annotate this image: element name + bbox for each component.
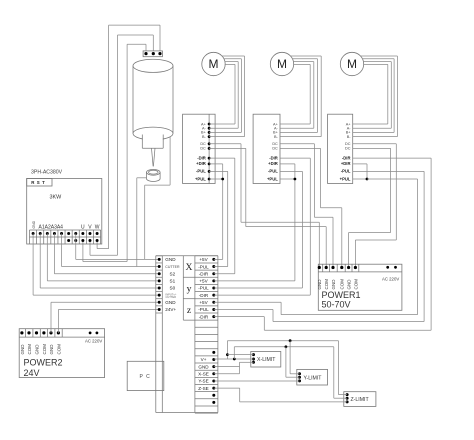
svg-text:X: X: [186, 262, 193, 273]
svg-text:COM: COM: [353, 279, 358, 290]
svg-text:+DIR: +DIR: [341, 161, 351, 166]
svg-text:DC: DC: [272, 142, 278, 146]
svg-text:GND: GND: [331, 279, 336, 290]
svg-text:-DIR: -DIR: [269, 155, 278, 160]
svg-text:50-70V: 50-70V: [322, 300, 351, 310]
svg-text:COM: COM: [340, 279, 345, 290]
svg-text:-DIR: -DIR: [342, 155, 351, 160]
svg-text:AC 220V: AC 220V: [85, 339, 102, 344]
svg-text:+PUL: +PUL: [195, 176, 206, 181]
svg-text:+5V: +5V: [199, 257, 208, 262]
svg-text:Z-SE: Z-SE: [198, 386, 208, 391]
svg-text:-DIR: -DIR: [199, 314, 209, 319]
svg-text:24V: 24V: [24, 368, 40, 378]
svg-text:POWER1: POWER1: [322, 290, 361, 300]
svg-text:X-LIMIT: X-LIMIT: [257, 357, 276, 363]
svg-text:S0: S0: [170, 286, 176, 291]
svg-text:-PUL: -PUL: [198, 307, 209, 312]
svg-text:GND: GND: [32, 220, 36, 228]
svg-text:+DIR: +DIR: [268, 161, 278, 166]
svg-text:+5V: +5V: [199, 300, 208, 305]
svg-text:X-SE: X-SE: [198, 372, 209, 377]
svg-text:+PUL: +PUL: [267, 176, 278, 181]
svg-text:CUTTER: CUTTER: [166, 295, 177, 299]
svg-text:COM: COM: [27, 344, 32, 355]
svg-text:+PUL: +PUL: [340, 176, 351, 181]
svg-text:M: M: [209, 57, 219, 71]
svg-text:-PUL: -PUL: [268, 169, 278, 174]
svg-text:-PUL: -PUL: [341, 169, 351, 174]
svg-text:z: z: [187, 305, 191, 316]
svg-text:GND: GND: [347, 279, 352, 290]
svg-text:DC: DC: [272, 147, 278, 151]
svg-text:3KW: 3KW: [50, 195, 63, 201]
svg-text:GND: GND: [165, 300, 176, 305]
svg-text:U: U: [81, 224, 85, 230]
svg-text:P C: P C: [140, 374, 151, 380]
svg-text:GND: GND: [165, 257, 176, 262]
svg-text:-PUL: -PUL: [198, 264, 209, 269]
svg-text:+DIR: +DIR: [196, 161, 206, 166]
svg-text:POWER2: POWER2: [24, 358, 63, 368]
svg-text:M: M: [277, 57, 287, 71]
svg-text:GND: GND: [317, 279, 322, 290]
svg-text:R S T: R S T: [31, 180, 45, 185]
svg-text:W: W: [95, 224, 100, 230]
svg-text:-DIR: -DIR: [197, 155, 206, 160]
svg-text:GND: GND: [34, 344, 39, 355]
svg-text:DC: DC: [200, 142, 206, 146]
svg-text:3PH-AC380V: 3PH-AC380V: [31, 170, 63, 176]
svg-text:A1A2A3A4: A1A2A3A4: [39, 224, 64, 230]
svg-text:-DIR: -DIR: [199, 271, 209, 276]
svg-text:Z-LIMIT: Z-LIMIT: [351, 397, 370, 403]
svg-text:24V+: 24V+: [165, 307, 176, 312]
svg-text:DC: DC: [200, 147, 206, 151]
svg-text:-PUL: -PUL: [196, 169, 206, 174]
svg-text:Y-SE: Y-SE: [198, 379, 208, 384]
svg-text:COM: COM: [324, 279, 329, 290]
svg-text:S1: S1: [170, 279, 176, 284]
svg-text:DC: DC: [345, 142, 351, 146]
svg-text:-PUL: -PUL: [198, 286, 209, 291]
svg-text:DC: DC: [345, 147, 351, 151]
svg-text:CUTTER: CUTTER: [165, 265, 180, 269]
svg-text:COM: COM: [42, 344, 47, 355]
svg-text:S2: S2: [170, 271, 176, 276]
svg-text:y: y: [187, 284, 192, 295]
svg-text:COM: COM: [56, 344, 61, 355]
svg-text:M: M: [347, 57, 357, 71]
svg-text:AC 220V: AC 220V: [382, 277, 399, 282]
svg-text:GND: GND: [198, 364, 209, 369]
svg-text:Y-LIMIT: Y-LIMIT: [304, 375, 323, 381]
svg-text:+5V: +5V: [199, 279, 208, 284]
svg-text:GND: GND: [49, 344, 54, 355]
svg-text:GND: GND: [20, 344, 25, 355]
svg-text:V+: V+: [201, 357, 207, 362]
svg-text:-DIR: -DIR: [199, 293, 209, 298]
